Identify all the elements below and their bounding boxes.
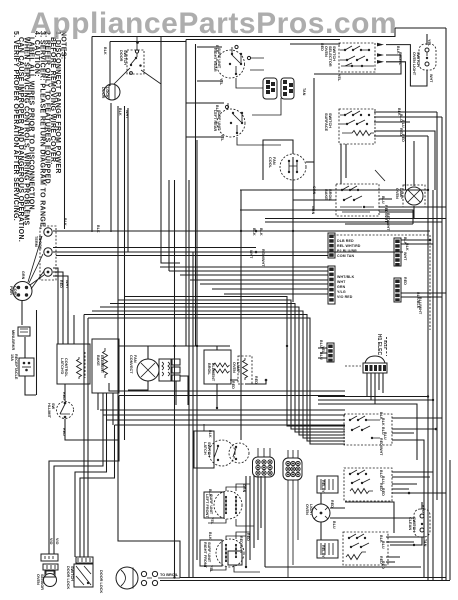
wire selector out 2 (314, 55, 401, 74)
svg-text:GRN: GRN (21, 271, 25, 280)
svg-text:RED/WHT: RED/WHT (239, 536, 243, 554)
svg-text:SWITCH: SWITCH (70, 566, 74, 581)
svg-text:BAKE: BAKE (96, 355, 100, 366)
wire bake stub 2 (102, 393, 104, 415)
svg-text:TAN: TAN (423, 539, 427, 547)
oven relay switch 3 (343, 532, 424, 565)
wire right bus 437 (436, 112, 438, 500)
svg-text:CLEAN: CLEAN (408, 517, 412, 530)
svg-text:RED: RED (62, 392, 66, 400)
wire xfmr 1 (366, 373, 368, 397)
latch switch (194, 424, 235, 468)
wire board mid 3 (318, 404, 417, 460)
control board boundary (333, 235, 430, 330)
svg-text:RELAY: RELAY (321, 545, 325, 558)
svg-text:SWITCH: SWITCH (328, 113, 332, 128)
svg-text:RED/WHT: RED/WHT (386, 213, 390, 231)
svg-text:REL WHT/RD: REL WHT/RD (337, 244, 361, 248)
wire red t3 (53, 276, 68, 344)
svg-text:Y/LG: Y/LG (337, 290, 346, 294)
svg-text:LATCH: LATCH (203, 442, 207, 455)
svg-text:BLU: BLU (319, 352, 323, 360)
wire bottom mid v1 (245, 476, 247, 567)
svg-text:P2 BLU/BR: P2 BLU/BR (337, 249, 357, 253)
bottom right frame (345, 502, 394, 533)
oven selector switch (339, 43, 375, 72)
svg-text:SWITCH: SWITCH (207, 442, 211, 457)
bake broil relay switch (336, 184, 379, 216)
svg-text:RED: RED (403, 277, 407, 285)
svg-text:HI-LIMIT: HI-LIMIT (47, 403, 51, 419)
lock motor connector J5 (318, 343, 334, 362)
indicator light (312, 493, 414, 540)
svg-text:WHT: WHT (125, 110, 129, 119)
svg-text:LATCH'D: LATCH'D (60, 358, 64, 374)
wire ovenlight top (426, 34, 428, 45)
wire hi-limit out (65, 419, 119, 440)
wire panel inner (195, 44, 197, 346)
svg-text:YEL: YEL (209, 565, 213, 573)
svg-text:RED/WHT: RED/WHT (261, 249, 265, 267)
svg-text:RED: RED (254, 376, 258, 384)
wire sw2 out 1 (374, 111, 437, 113)
clean switch (390, 502, 430, 545)
wire grn two (240, 210, 413, 224)
wire fan down (292, 180, 294, 190)
wire bus mid 1 (119, 395, 345, 397)
wire door drop (127, 108, 129, 252)
svg-text:OVEN: OVEN (232, 362, 236, 373)
vio switch circle (229, 443, 249, 463)
wire bottom drop C (196, 140, 198, 560)
wire sw2 out 4 (374, 131, 435, 190)
wire bus mid 5 (80, 425, 345, 557)
wire fan to connector 2 (169, 270, 328, 272)
mini breaker (18, 327, 30, 336)
wire bottom drop B (192, 252, 194, 578)
svg-text:WHT: WHT (249, 250, 253, 259)
door lock motor bottom (116, 567, 180, 589)
convection fan (128, 346, 171, 390)
svg-text:BLU/WHT: BLU/WHT (418, 297, 422, 315)
wire right bus 450 (449, 460, 451, 580)
wire connector B drops (288, 480, 298, 577)
wire board out 3 (401, 292, 446, 294)
transformer T1 (345, 337, 387, 373)
infinite switch SW-RR (217, 45, 265, 88)
wire lamp link (345, 223, 413, 225)
wire bus mid 0 (109, 383, 345, 391)
svg-text:LOCK: LOCK (105, 87, 109, 98)
wire board mid 2 (318, 399, 433, 401)
svg-text:GRN: GRN (337, 285, 346, 289)
relay box bottom (317, 540, 338, 558)
svg-text:BROIL: BROIL (328, 189, 332, 201)
svg-text:OVEN LIGHT: OVEN LIGHT (412, 52, 416, 76)
door switch S1 (114, 37, 161, 84)
svg-text:TO BROIL: TO BROIL (160, 573, 179, 577)
svg-text:SURF UNIT: SURF UNIT (217, 110, 221, 131)
svg-text:RED: RED (401, 134, 405, 142)
wire grn brkr (24, 337, 26, 358)
infinite switch SW-LR (217, 98, 281, 145)
wire red t1 (53, 268, 58, 344)
svg-text:COM TAN: COM TAN (337, 254, 355, 258)
svg-text:YEL: YEL (220, 134, 224, 142)
svg-text:SURF UNIT: SURF UNIT (207, 542, 211, 563)
wire board out 4 (401, 296, 442, 298)
wire bake drop (97, 393, 99, 410)
svg-text:WHT: WHT (65, 280, 69, 289)
svg-text:BLK: BLK (252, 228, 256, 236)
svg-text:CONTROL: CONTROL (64, 358, 68, 377)
svg-text:5. VERIFY PROPER OPERATION AFT: 5. VERIFY PROPER OPERATION AFTER SERVICI… (12, 31, 19, 221)
svg-text:5313: 5313 (383, 340, 387, 348)
svg-text:PWR: PWR (9, 286, 13, 295)
svg-text:YEL: YEL (210, 517, 214, 525)
oven light switch (419, 44, 436, 70)
wire grn one (240, 189, 428, 191)
svg-text:DLB RED: DLB RED (337, 239, 354, 243)
connector P4 (281, 78, 294, 99)
wire top second (186, 39, 340, 41)
svg-text:SENSOR: SENSOR (40, 574, 44, 590)
wire sw2 yel (186, 136, 224, 138)
svg-text:DOOR: DOOR (119, 50, 123, 62)
svg-text:COOL: COOL (268, 157, 272, 169)
wire hi-limit feed (64, 384, 66, 401)
wire lamp down (413, 206, 415, 219)
wire left feed L1 (91, 37, 93, 233)
svg-text:OVEN: OVEN (324, 46, 328, 57)
svg-text:VIO: VIO (55, 538, 59, 545)
wire bus under relay b (265, 221, 442, 223)
arrowhead out 1 (377, 43, 384, 47)
svg-text:LAMP: LAMP (236, 362, 240, 373)
wire xfmr 2 (370, 373, 372, 400)
svg-text:MINI-BRKR: MINI-BRKR (11, 330, 15, 351)
svg-text:SWITCH: SWITCH (412, 517, 416, 532)
wire sw3 diagonal (375, 170, 385, 181)
wire bake drop b (112, 393, 114, 425)
svg-text:BLK: BLK (96, 225, 100, 233)
svg-text:RED/WHT: RED/WHT (379, 438, 383, 456)
arrowhead out 2 (377, 53, 384, 57)
wire panel left (185, 40, 187, 347)
junction wht (255, 251, 258, 254)
wire board out 2 (401, 243, 433, 245)
wire recpt down (25, 376, 36, 395)
svg-text:YEL: YEL (398, 58, 402, 66)
svg-text:SW: SW (51, 403, 55, 410)
cooling fan motor (280, 154, 306, 180)
wire sw3 out 1 (379, 198, 392, 200)
wire selector out 1 (386, 45, 427, 86)
wire wht b (53, 251, 403, 253)
wire bottom bus a (180, 577, 446, 579)
wire sw2 out 2 (374, 116, 442, 118)
oven relay switch 2 (344, 468, 446, 501)
surface unit RF (200, 532, 260, 572)
control board connector J4 (328, 266, 335, 304)
svg-text:LEFT FRONT: LEFT FRONT (205, 494, 209, 518)
wire right bus 428 (427, 136, 429, 580)
wire surface yel (197, 80, 223, 82)
bottom connector grid B (283, 458, 302, 480)
wire sw3 in 2 (293, 199, 336, 201)
wire long left to lock motor (118, 106, 180, 578)
wire center long (292, 157, 294, 302)
wire bottom mid v4 (257, 476, 259, 540)
wire stair 3 (110, 304, 345, 433)
svg-text:OVEN: OVEN (36, 574, 40, 585)
oven sensor (41, 554, 58, 587)
wire bottom mid v5 (260, 476, 262, 528)
power cord plug (13, 236, 44, 301)
svg-text:WHT: WHT (429, 74, 433, 83)
wire top left vertical (161, 36, 180, 263)
wire surface feed (197, 46, 222, 48)
wire bottom mid v3 (253, 476, 255, 548)
svg-text:BLK: BLK (381, 418, 385, 426)
wire sw2 blk (186, 102, 224, 104)
svg-text:RED: RED (421, 505, 425, 513)
svg-text:TAN: TAN (302, 88, 306, 96)
svg-text:SWITCH: SWITCH (123, 50, 127, 65)
oven lamp B1 (403, 185, 425, 207)
svg-text:SWITCH: SWITCH (416, 52, 420, 67)
control board connector J3 (328, 233, 335, 258)
wire red t2 (53, 272, 63, 344)
wire stair 7 (88, 318, 345, 557)
svg-text:H1 ELEC: H1 ELEC (376, 334, 382, 356)
svg-text:OVEN: OVEN (395, 188, 399, 199)
svg-text:RED: RED (231, 381, 235, 389)
wire stair 2 (118, 300, 345, 429)
bake broil switch (339, 109, 375, 144)
svg-text:WHT/BLK: WHT/BLK (337, 275, 355, 279)
svg-text:FAN: FAN (272, 157, 276, 165)
svg-text:BLK: BLK (259, 228, 263, 236)
wire xfmr 4 (378, 373, 380, 390)
svg-text:15A: 15A (10, 354, 14, 361)
svg-text:ELEMENT: ELEMENT (211, 363, 215, 382)
svg-text:OVEN: OVEN (305, 504, 309, 515)
svg-text:RIGHT FRONT: RIGHT FRONT (203, 542, 207, 569)
wire door feed (110, 42, 186, 87)
connector P3 (263, 78, 277, 99)
wire board mid 1 (318, 396, 428, 398)
wire center upper (313, 78, 315, 211)
svg-text:RED: RED (246, 533, 250, 541)
oven relay switch 1 (344, 414, 442, 577)
svg-text:AppliancePartsPros.com: AppliancePartsPros.com (30, 7, 397, 40)
wire wht c (56, 255, 328, 257)
door lock motor M1 (104, 84, 120, 100)
wire bottom drop A (188, 180, 190, 578)
svg-text:BLU: BLU (381, 541, 385, 549)
svg-text:LAMP: LAMP (399, 188, 403, 199)
wire bake stub 3 (106, 393, 108, 420)
svg-text:BLU: BLU (332, 521, 336, 529)
svg-text:BLK: BLK (208, 430, 212, 438)
wire board out 1 (401, 239, 430, 241)
wire top bus (92, 28, 395, 37)
wire right bus 442 (441, 117, 443, 580)
svg-text:SELECTOR: SELECTOR (328, 46, 332, 67)
svg-text:BLU: BLU (401, 120, 405, 128)
wire center left vertical (240, 190, 242, 440)
svg-text:ELEMENT: ELEMENT (100, 355, 104, 374)
capacitor cluster (172, 359, 188, 405)
wire sw2 out 5 (374, 135, 428, 137)
svg-text:RED: RED (320, 43, 324, 51)
terminal block TB (40, 226, 56, 280)
wire bottom bus b (160, 580, 450, 582)
wire fan to connector 7 (224, 293, 328, 295)
wire bus mid 4 (75, 420, 345, 557)
junction board (429, 239, 432, 242)
svg-text:YEL: YEL (219, 78, 223, 86)
wire conv top (118, 345, 230, 347)
wire red center (290, 43, 340, 45)
svg-text:TERM: TERM (34, 236, 38, 247)
wire xfmr 5 (382, 373, 384, 393)
junction blk (255, 230, 258, 233)
wire bottom mid v6 (265, 476, 421, 567)
wire cover drop (36, 310, 38, 395)
wire grn cord (21, 301, 23, 325)
wire wht a (53, 247, 256, 249)
wire fan to connector 1 (160, 266, 328, 268)
bake element (92, 339, 119, 393)
wire stair 6 (84, 315, 345, 558)
svg-text:BROIL: BROIL (207, 363, 211, 375)
svg-text:RED: RED (59, 280, 63, 288)
wire tan to control (68, 311, 74, 344)
border frame right (445, 28, 447, 581)
svg-text:GRN: GRN (312, 186, 316, 195)
notes text block (12, 31, 67, 242)
svg-text:VIO RED: VIO RED (337, 295, 353, 299)
svg-text:BLK: BLK (118, 108, 122, 116)
svg-text:BAKE: BAKE (324, 189, 328, 200)
svg-text:GRN: GRN (242, 484, 246, 493)
svg-text:GRN: GRN (311, 206, 315, 215)
wire stair 5 (92, 311, 345, 438)
control board connector J2 (394, 278, 401, 302)
wire xfmr 3 (374, 373, 376, 404)
wire connector feeds (258, 448, 298, 458)
wire conv drop (174, 180, 176, 578)
svg-text:SURF UNIT: SURF UNIT (217, 48, 221, 69)
svg-text:SWITCH: SWITCH (332, 46, 336, 61)
svg-text:RECEPTACLE: RECEPTACLE (14, 354, 18, 380)
wire stair 1 (125, 297, 345, 427)
svg-text:RED: RED (381, 488, 385, 496)
wire bus mid 2 (100, 409, 345, 411)
svg-text:YEL: YEL (337, 74, 341, 82)
svg-text:BLK: BLK (63, 218, 67, 226)
surface unit LF (204, 484, 254, 526)
svg-text:BLK: BLK (208, 532, 212, 540)
svg-text:RED: RED (330, 500, 334, 508)
svg-text:BLK: BLK (405, 243, 409, 251)
svg-text:DOOR LOCK: DOOR LOCK (99, 570, 103, 593)
wire bottom mid v2 (249, 476, 251, 560)
bottom connector grid A (253, 457, 275, 477)
svg-text:CONVECT: CONVECT (129, 355, 133, 374)
svg-text:RED: RED (381, 561, 385, 569)
wire fan right (306, 161, 314, 163)
oven lamp resistor (230, 356, 267, 384)
15A receptacle (19, 358, 34, 376)
wire sw3 out 2 (379, 206, 446, 208)
door lock control box (57, 344, 90, 384)
wire selector out 3 (386, 62, 406, 190)
wire sw3 out 3 (379, 211, 413, 213)
svg-text:BLK: BLK (103, 47, 107, 55)
svg-text:CORD: CORD (13, 286, 17, 297)
svg-text:DOOR: DOOR (101, 87, 105, 99)
wire stair 4 (100, 307, 345, 435)
svg-text:RELAY: RELAY (321, 480, 325, 493)
svg-text:SURFACE: SURFACE (324, 113, 328, 132)
wire fan box (263, 140, 293, 180)
wire fan to connector 3 (180, 274, 328, 276)
wire fan to connector 4 (190, 279, 328, 281)
svg-text:WHT: WHT (337, 280, 346, 284)
svg-text:DOOR LOCK: DOOR LOCK (66, 566, 70, 589)
svg-text:FAN: FAN (133, 355, 137, 363)
control board connector J1 (394, 238, 401, 266)
svg-text:RIGHT REAR: RIGHT REAR (213, 48, 217, 72)
wire right bus 433 (432, 190, 434, 580)
wire left mid (124, 106, 126, 440)
wire bus mid 3 (54, 415, 345, 554)
hi-limit switch (57, 402, 74, 419)
wire blk main bus (53, 230, 430, 232)
svg-text:VIO: VIO (49, 538, 53, 545)
svg-text:SURF UNIT: SURF UNIT (209, 494, 213, 515)
svg-text:WHT: WHT (403, 252, 407, 261)
wire left blk riser (64, 50, 66, 229)
svg-text:LEFT REAR: LEFT REAR (213, 110, 217, 132)
wire bus under relay (265, 218, 446, 220)
svg-text:YEL: YEL (427, 39, 431, 47)
broil element (204, 346, 231, 408)
svg-text:LIGHT: LIGHT (309, 504, 313, 516)
svg-text:RED: RED (62, 428, 66, 436)
wire sw2 out 3 (374, 121, 410, 123)
wire lamp up (413, 141, 415, 186)
door lock switch (74, 557, 93, 587)
svg-text:BLOCK: BLOCK (38, 236, 42, 250)
relay box top (317, 476, 338, 493)
wire fan to connector 5 (200, 283, 328, 285)
wire door to bus (110, 103, 112, 232)
wire sw2 to sw3 (341, 144, 346, 184)
svg-text:BLU: BLU (381, 196, 385, 204)
wire mid drop (168, 180, 170, 271)
border frame top right (395, 27, 446, 29)
wire fan to connector 6 (212, 288, 328, 290)
wire sw3 in 1 (314, 189, 336, 191)
arrowhead out 3 (377, 60, 384, 64)
wire sensor elbow (49, 396, 119, 555)
